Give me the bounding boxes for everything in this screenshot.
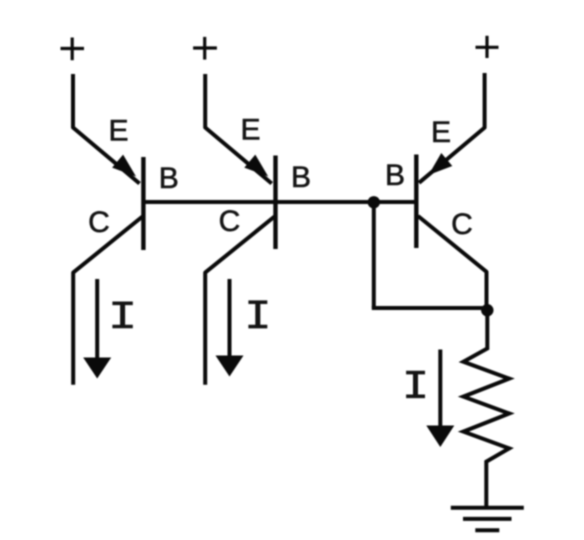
junction dot at collector node — [481, 304, 493, 316]
wire: base bus connecting Q1 Q2 Q3 — [143, 200, 416, 204]
transistor Q1 base bar — [141, 157, 145, 250]
wire: emitter lead Q2 from + — [205, 74, 272, 184]
emitter arrowhead Q1 — [112, 155, 136, 177]
ground symbol — [451, 508, 524, 531]
emitter arrowhead Q3 — [429, 153, 453, 175]
svg-text:E: E — [431, 116, 451, 149]
svg-text:B: B — [159, 162, 179, 195]
label I (Q1 current) — [112, 303, 132, 326]
plus supply symbol 2 — [193, 37, 217, 60]
svg-text:E: E — [108, 115, 128, 148]
wire: base feedback vertical — [372, 202, 376, 308]
svg-text:E: E — [240, 114, 260, 147]
collector lead Q2 — [205, 217, 274, 385]
svg-text:C: C — [219, 205, 241, 238]
svg-text:C: C — [451, 208, 473, 241]
wire: base feedback horizontal — [372, 306, 488, 310]
transistor Q3 base bar — [414, 155, 418, 249]
transistor Q2 base bar — [273, 156, 277, 250]
plus supply symbol 1 — [61, 38, 85, 61]
junction dot on base bus — [368, 196, 380, 208]
wire: emitter lead Q3 from + — [419, 73, 485, 183]
svg-text:B: B — [385, 159, 405, 192]
plus supply symbol 3 — [476, 36, 499, 58]
svg-text:B: B — [291, 161, 311, 194]
emitter arrowhead Q2 — [244, 155, 268, 177]
svg-text:C: C — [88, 206, 110, 239]
label I (Q2 current) — [248, 302, 267, 326]
collector lead Q3 — [418, 216, 487, 316]
wire: emitter lead Q1 from + — [73, 74, 140, 184]
current arrow I2 — [216, 279, 244, 377]
resistor R1 zigzag — [463, 312, 509, 506]
label I (resistor current) — [406, 373, 425, 397]
current arrow I1 — [83, 279, 111, 379]
current arrow I3 — [426, 350, 454, 448]
collector lead Q1 — [73, 217, 142, 385]
